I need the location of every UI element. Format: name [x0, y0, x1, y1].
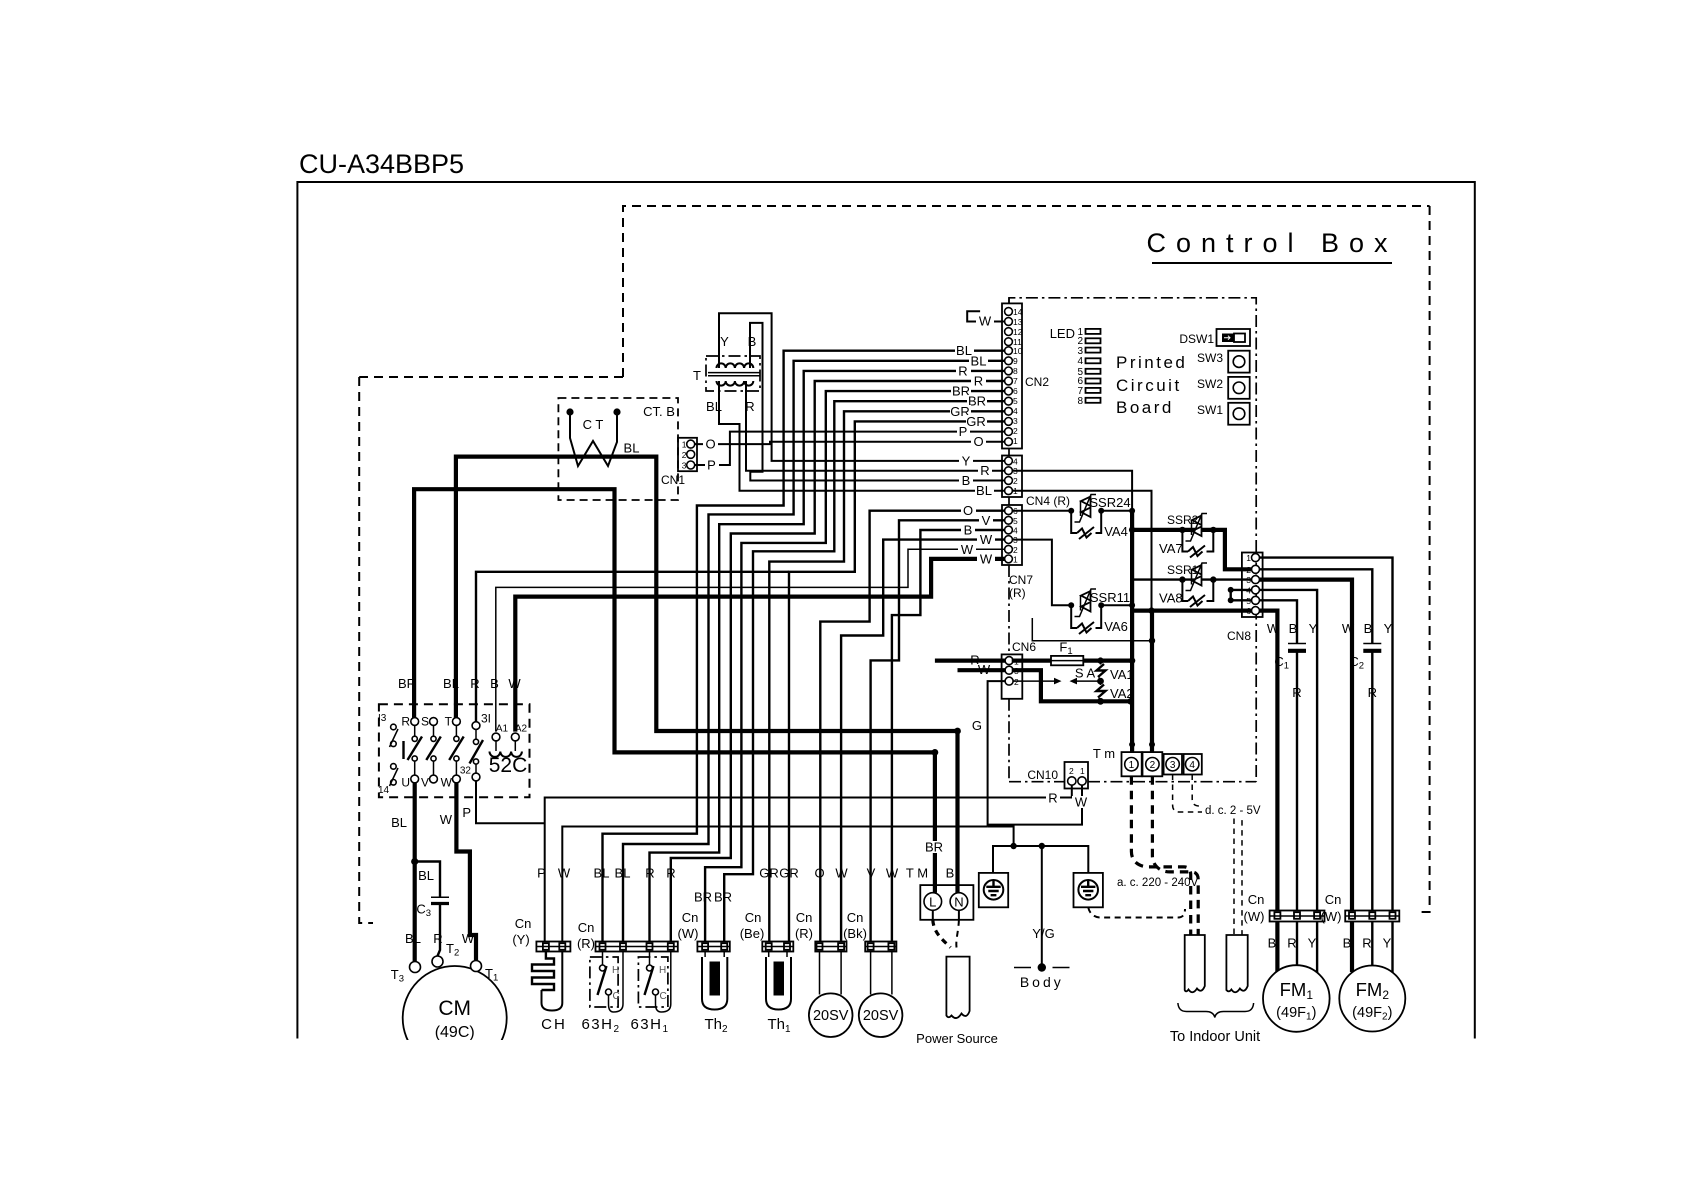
svg-text:BL: BL [405, 931, 421, 946]
junction BR/TM [932, 749, 939, 756]
connector bar Cn(Bk) for 20SV2 [843, 910, 896, 952]
svg-text:W: W [980, 532, 993, 547]
wire CN2 pin8 R to 63H1 pin1 [650, 371, 1006, 942]
terminal block TM [920, 885, 973, 920]
ground symbol 1 [979, 873, 1008, 907]
svg-text:1: 1 [1129, 760, 1135, 771]
svg-text:V: V [982, 513, 991, 528]
wire CN2 pin9 BL to 63H2 pin2 [623, 361, 1005, 942]
Control Box title underline [1152, 262, 1392, 264]
transformer T secondary winding [717, 381, 754, 386]
svg-text:(W): (W) [678, 926, 699, 941]
junction dots SSR11 [1068, 602, 1074, 608]
svg-text:R: R [974, 374, 983, 389]
wire P 52C aux 32 to CH pin1 [476, 780, 545, 823]
connector bar Cn(R) for 63H2/63H1 [577, 920, 678, 952]
label P near CN1 [705, 458, 719, 473]
CN2 pin circles and numbers [1005, 307, 1023, 446]
junction dots SSR24 [1068, 508, 1074, 514]
svg-text:W: W [441, 776, 453, 790]
svg-text:Cn: Cn [745, 910, 762, 925]
label BR at TM [924, 840, 944, 855]
svg-text:1: 1 [1080, 766, 1085, 776]
capacitor C3 branch [415, 862, 440, 898]
varistor VA7 loop [1182, 530, 1213, 552]
wire ground-rail link [988, 827, 1014, 847]
wire label BL CN4 pin1 [975, 483, 994, 498]
clip CM circle bottom (source scan cut) [394, 1040, 516, 1090]
junction VA4 [1129, 527, 1135, 533]
svg-text:Cn: Cn [578, 920, 595, 935]
svg-text:R: R [1048, 790, 1057, 805]
svg-text:10: 10 [1013, 346, 1023, 356]
SW2 [1197, 377, 1250, 399]
compressor motor CM circle [403, 966, 507, 1070]
wire CN4 pin3 R into PCB to VA4 node [1012, 471, 1132, 530]
wire label B CN4 pin2 [959, 473, 973, 488]
indoor flag 2 [1226, 935, 1247, 992]
SSR24 output line to VA4 node [1101, 510, 1132, 512]
svg-text:O: O [814, 866, 824, 881]
wire label O CN7 pin6 [961, 503, 976, 518]
CN8 pin5 wire to FM1 B [1259, 600, 1297, 910]
SSR24 triac [1075, 495, 1131, 523]
svg-text:B: B [946, 866, 955, 881]
svg-text:B: B [964, 523, 973, 538]
svg-text:Control Box: Control Box [1146, 228, 1397, 258]
line SSR1 from thick vertical to CN8 pin3 [1132, 578, 1252, 580]
svg-text:a. c. 220 - 240V: a. c. 220 - 240V [1117, 877, 1199, 889]
svg-text:S: S [421, 715, 429, 729]
svg-text:Circuit: Circuit [1116, 376, 1182, 395]
thermistor Th2 [702, 952, 728, 1036]
svg-text:Y: Y [1383, 936, 1392, 951]
svg-text:Cn: Cn [796, 910, 813, 925]
svg-text:1: 1 [1013, 436, 1018, 446]
wire CN4 pin1 BL into PCB to CN8 pin6 line [1012, 491, 1152, 611]
52C pole R-U [401, 715, 422, 790]
CN8 pins 4-5 jumper [1231, 590, 1252, 600]
wire label GR pin3 [966, 414, 987, 429]
svg-text:B: B [962, 473, 971, 488]
d.c. wire Tm4 (dashed) [1192, 775, 1242, 936]
wire Y transformer to CN4 pin4 [719, 313, 1005, 461]
svg-text:Body: Body [1020, 974, 1064, 990]
svg-text:P: P [959, 424, 968, 439]
wire G CN6 pin2 to ground rail [988, 681, 1006, 826]
junction dots SSR2 [1179, 527, 1185, 533]
52C coil A1-A2 [490, 724, 528, 757]
svg-text:CH: CH [541, 1016, 567, 1033]
svg-text:P: P [462, 805, 471, 820]
CM terminal T3 [410, 962, 421, 973]
wire label O pin1 [971, 434, 986, 449]
svg-text:Cn: Cn [515, 916, 532, 931]
svg-text:(49C): (49C) [435, 1024, 475, 1041]
svg-text:R: R [1287, 936, 1296, 951]
junction dots at Tm risers [1129, 742, 1135, 748]
52C mechanical bar [402, 741, 404, 759]
svg-text:BR: BR [925, 840, 943, 855]
svg-text:W: W [961, 542, 974, 557]
svg-text:(W): (W) [1321, 909, 1342, 924]
svg-text:Cn: Cn [1248, 892, 1265, 907]
svg-text:SSR2: SSR2 [1167, 513, 1199, 527]
connector CN1 [661, 438, 697, 487]
svg-text:DSW1: DSW1 [1179, 332, 1214, 346]
svg-text:12: 12 [1013, 327, 1023, 337]
svg-text:CT. B: CT. B [643, 404, 675, 419]
wire label BL pin9 [969, 353, 988, 368]
wire O CN1 pin1 to CN2 pin1 [694, 442, 1005, 444]
thick line to CN8 pin6 [1132, 608, 1252, 612]
svg-text:R: R [745, 399, 754, 414]
svg-text:Power Source: Power Source [916, 1031, 998, 1046]
CM terminal T1 [471, 961, 482, 972]
svg-text:9: 9 [1013, 356, 1018, 366]
svg-text:VA1: VA1 [1110, 667, 1134, 682]
svg-text:Y: Y [1308, 936, 1317, 951]
svg-text:GR: GR [779, 866, 799, 881]
thick line VA4 node to SSR2 to CN8 pin2 [1132, 530, 1252, 569]
wire label R CN4 pin3 [978, 463, 992, 478]
svg-text:2: 2 [1013, 545, 1018, 555]
Body ground point [1014, 963, 1070, 990]
contactor 52C dashed box [379, 704, 530, 797]
connector CN6 [1002, 640, 1037, 699]
fan motor FM1 [1263, 965, 1330, 1032]
svg-text:C T: C T [583, 417, 604, 432]
wire CN2 pin6 BR to Th2 pin1 [705, 391, 1005, 941]
svg-text:O: O [963, 503, 973, 518]
svg-text:2: 2 [1013, 476, 1018, 486]
junction dots SSR1 [1179, 576, 1185, 582]
wire CN2 pin3 GR to Th1 pin2 [789, 421, 1005, 941]
wire CN7 pin5 V to 20SV2 pin1 [871, 520, 1006, 941]
svg-text:O: O [705, 437, 715, 452]
svg-text:VA7: VA7 [1159, 541, 1183, 556]
wire label GR pin4 [950, 404, 971, 419]
svg-text:SW3: SW3 [1197, 351, 1223, 365]
wire label W pin13 [976, 314, 994, 329]
svg-text:14: 14 [378, 785, 390, 796]
junction VA1/VA2 [1097, 678, 1104, 685]
junction BL/TM [954, 728, 961, 735]
svg-text:W: W [508, 676, 521, 691]
FM1 lead wires [1275, 922, 1279, 973]
wire label R pin8 [956, 363, 971, 378]
svg-text:3: 3 [1170, 760, 1176, 771]
Control Box dashed boundary left part [359, 376, 623, 378]
connector bar Cn(Be) for Th1 [740, 910, 794, 952]
terminal block Tm [1093, 746, 1202, 776]
svg-text:G: G [972, 718, 982, 733]
svg-text:W: W [886, 866, 899, 881]
svg-text:W: W [462, 931, 475, 946]
CT.B dashed box [558, 398, 678, 500]
wire label B CN7 pin4 [961, 523, 975, 538]
wire CN7 pin6 O to 20SV1 pin1 [820, 511, 1005, 942]
varistor VA1 [1097, 664, 1106, 677]
svg-text:R: R [666, 866, 675, 881]
svg-text:BL: BL [706, 399, 722, 414]
spark gap SA [1013, 666, 1101, 685]
wire CN7 pin3 W to 20SV1 pin2 [841, 540, 1005, 942]
wire BL 52C T-pole to TM N via CT (thick) [456, 457, 958, 893]
wire W CN10 pin1 to CH pin2 [562, 785, 1082, 941]
SSR11 output to thick vertical [1101, 604, 1132, 606]
CN8 pin2 wire to FM2 B [1259, 569, 1372, 910]
svg-text:BL: BL [624, 441, 640, 456]
svg-text:(Be): (Be) [740, 926, 765, 941]
capacitor C2 [1349, 644, 1381, 701]
wire label BR pin6 [951, 384, 971, 399]
ground symbol 2 [1074, 873, 1103, 907]
CN8 pin4 wire to FM1 Y [1259, 590, 1317, 911]
svg-text:I3: I3 [378, 713, 387, 724]
svg-text:T M: T M [906, 866, 928, 881]
svg-text:1: 1 [1013, 554, 1018, 564]
svg-text:(Bk): (Bk) [843, 926, 867, 941]
svg-text:BL: BL [971, 353, 987, 368]
svg-text:BL: BL [391, 815, 407, 830]
wire B transformer to CN4 pin2 [750, 323, 1005, 481]
svg-text:SSR11: SSR11 [1090, 590, 1130, 605]
svg-text:GR: GR [759, 866, 779, 881]
svg-text:Y: Y [1309, 621, 1318, 636]
svg-text:B: B [1364, 621, 1373, 636]
svg-text:5: 5 [1013, 396, 1018, 406]
wire BR 52C R-pole to TM L (thick) [414, 489, 935, 893]
wire label V CN7 pin5 [979, 513, 993, 528]
varistor VA6 loop [1071, 605, 1101, 628]
junction F1/VA1 [1097, 657, 1103, 663]
wire W 52C W-pole to CM T1 (thick) [456, 782, 476, 960]
svg-text:BR: BR [714, 890, 732, 905]
TM N lead dashed to power source [958, 910, 960, 920]
svg-text:T m: T m [1093, 746, 1115, 761]
label O near CN1 [703, 437, 718, 452]
svg-text:Cn: Cn [847, 910, 864, 925]
svg-text:H: H [659, 965, 666, 976]
svg-text:BL: BL [976, 483, 992, 498]
svg-text:T: T [693, 368, 701, 383]
wire CN7 pin6 O into PCB to SSR24 [1012, 510, 1071, 512]
svg-text:4: 4 [1013, 526, 1018, 536]
svg-text:5: 5 [1013, 516, 1018, 526]
CM terminal T2 [432, 956, 443, 967]
svg-text:Cn: Cn [1325, 892, 1342, 907]
Power Source flag [946, 957, 969, 1018]
svg-text:Y: Y [962, 453, 971, 468]
svg-text:W: W [1342, 621, 1355, 636]
svg-text:Cn: Cn [682, 910, 699, 925]
wire CN7 pin4 B to 20SV2 pin2 [892, 530, 1005, 942]
svg-text:CN1: CN1 [661, 473, 685, 487]
svg-text:20SV: 20SV [813, 1008, 849, 1024]
svg-text:4: 4 [1013, 406, 1018, 416]
svg-text:14: 14 [1013, 307, 1023, 317]
transformer T primary winding [717, 363, 754, 368]
svg-text:2: 2 [1150, 760, 1156, 771]
svg-text:P: P [707, 458, 716, 473]
svg-text:CN4 (R): CN4 (R) [1026, 494, 1070, 508]
pressure switch 63H1 [630, 952, 670, 1036]
connector bar Cn(W) for FM2 [1321, 892, 1400, 924]
wire BL 52C U to CM T3 (thick) [413, 782, 417, 963]
svg-text:H: H [612, 965, 619, 976]
svg-text:V: V [867, 866, 876, 881]
svg-text:CU-A34BBP5: CU-A34BBP5 [299, 149, 464, 179]
svg-text:SSR1: SSR1 [1167, 563, 1199, 577]
SW3 [1197, 351, 1250, 373]
svg-text:N: N [954, 894, 963, 909]
wire label R pin7 [971, 374, 986, 389]
thick VA4 node vertical to Tm pin1 [1130, 511, 1134, 752]
svg-text:VA6: VA6 [1104, 619, 1128, 634]
svg-text:U: U [401, 776, 410, 790]
label W CN10 [1072, 795, 1090, 810]
connector CN10 [1027, 762, 1088, 789]
CN8 pin3 wire to FM2 W (thick) [1259, 580, 1352, 911]
d.c. wire Tm3 (dashed) [1173, 775, 1234, 936]
svg-text:2: 2 [1069, 766, 1074, 776]
svg-text:R: R [470, 676, 479, 691]
svg-text:R: R [980, 463, 989, 478]
svg-text:4: 4 [1189, 760, 1195, 771]
wire CN7 pin1 W to 52C coil A2 [515, 559, 1005, 732]
svg-text:B: B [1289, 621, 1298, 636]
wire label W CN7 pin1 [977, 551, 995, 566]
svg-text:CN10: CN10 [1027, 768, 1058, 782]
transformer T core [708, 373, 760, 376]
VA6 bottom line [1032, 618, 1152, 641]
PCB corner stub to CN2 [1008, 298, 1010, 304]
svg-text:B: B [1268, 936, 1277, 951]
pressure switch 63H2 [581, 952, 623, 1036]
svg-text:8: 8 [1013, 366, 1018, 376]
wire label BR pin5 [967, 394, 987, 409]
connector CN4 (R) [1002, 456, 1070, 509]
svg-text:CN8: CN8 [1227, 629, 1251, 643]
svg-text:CN7: CN7 [1009, 573, 1033, 587]
wire BL transformer secondary to CN4 pin1 [719, 381, 1005, 491]
svg-text:BR: BR [398, 676, 416, 691]
TM L lead dashed to power source [932, 910, 934, 920]
svg-text:8: 8 [1077, 396, 1083, 407]
svg-text:Y/G: Y/G [1032, 926, 1054, 941]
varistor VA8 loop [1182, 580, 1213, 601]
svg-text:LED: LED [1050, 326, 1075, 341]
svg-text:VA8: VA8 [1159, 591, 1183, 606]
svg-text:B: B [490, 676, 499, 691]
svg-text:BL: BL [594, 866, 610, 881]
svg-text:Y: Y [720, 334, 729, 349]
LED bars 1-8 [1077, 327, 1100, 407]
wire label W CN7 pin3 [977, 532, 995, 547]
connector bar Cn(R) for 20SV1 [795, 910, 847, 952]
junction VA6 line [1149, 638, 1155, 644]
thick vertical to Tm pin2 [1150, 611, 1154, 753]
svg-text:W: W [979, 314, 992, 329]
svg-text:d. c. 2 - 5V: d. c. 2 - 5V [1205, 805, 1261, 817]
junction VA2 bottom [1097, 698, 1104, 705]
capacitor C3 [416, 868, 449, 956]
svg-text:P: P [537, 866, 546, 881]
junction CN4-BL line [1148, 607, 1154, 613]
wire label W CN7 pin2 [958, 542, 976, 557]
wire R transformer secondary to CN4 pin3 [746, 381, 1005, 471]
svg-text:V: V [421, 776, 429, 790]
outer border frame [297, 182, 1474, 1039]
svg-text:R: R [645, 866, 654, 881]
CT current transformer [566, 408, 620, 466]
svg-text:7: 7 [1013, 376, 1018, 386]
wire R CN10 pin2 to CH pin1 [545, 785, 1072, 941]
wire label BL pin10 [955, 343, 974, 358]
svg-text:Board: Board [1116, 398, 1174, 417]
svg-text:B: B [748, 334, 757, 349]
CN8 pin6 wire to FM1 W (thick) [1259, 611, 1278, 911]
wire CN2 pin4 GR to Th1 pin1 [769, 411, 1005, 941]
svg-text:W: W [1267, 621, 1280, 636]
CN8 pin1 wire to FM2 Y [1259, 558, 1393, 911]
junction rail/YG [1039, 843, 1045, 849]
fuse F1 [1012, 640, 1132, 666]
line CN7 pin3 W into PCB to SSR11 [1012, 540, 1071, 606]
Control Box dashed boundary [623, 206, 1430, 377]
wire CN2 pin10 BL to 63H2 pin1 [603, 351, 1006, 942]
svg-text:BL: BL [418, 868, 434, 883]
svg-text:O: O [973, 434, 983, 449]
svg-text:Y: Y [1384, 621, 1393, 636]
FM2 lead wires [1350, 922, 1354, 973]
connector bar Cn(W) for FM1 [1244, 892, 1325, 924]
wire hook CN2 pin13 W [967, 311, 1005, 321]
PCB dash-dot boundary [1009, 298, 1256, 782]
svg-text:R: R [433, 931, 442, 946]
a.c. wire Tm1 to indoor flag (dashed thick) [1131, 776, 1190, 935]
svg-text:3: 3 [1013, 416, 1018, 426]
svg-text:(Y): (Y) [512, 932, 529, 947]
52C aux contact 3I-32 [460, 712, 491, 781]
connector bar Cn(W) for Th2 [678, 910, 730, 952]
ground rail [993, 846, 1088, 873]
svg-text:CN6: CN6 [1012, 640, 1036, 654]
svg-text:C: C [660, 991, 667, 1002]
svg-text:W: W [835, 866, 848, 881]
svg-text:C: C [613, 991, 620, 1002]
svg-text:SSR24: SSR24 [1089, 495, 1130, 510]
svg-text:R: R [401, 715, 410, 729]
SSR1 triac [1167, 563, 1207, 591]
svg-text:32: 32 [460, 766, 472, 777]
connector CN2 (14-pin) [1002, 303, 1049, 448]
svg-text:W: W [558, 866, 571, 881]
varistor VA4 loop [1071, 511, 1101, 533]
svg-text:R: R [1368, 685, 1377, 700]
a.c. wire Tm2 to indoor flag (dashed thick) [1152, 776, 1198, 935]
wire CN2 pin7 R to 63H1 pin2 [671, 381, 1006, 942]
SW1 [1197, 403, 1250, 425]
connector CN8 [1227, 553, 1263, 644]
svg-text:13: 13 [1013, 317, 1023, 327]
svg-text:(R): (R) [795, 926, 813, 941]
wire Y/G to Body [1041, 846, 1043, 968]
svg-text:L: L [929, 894, 936, 909]
junction rail/G [1010, 843, 1016, 849]
connector bar Cn(Y) for CH [512, 916, 570, 952]
